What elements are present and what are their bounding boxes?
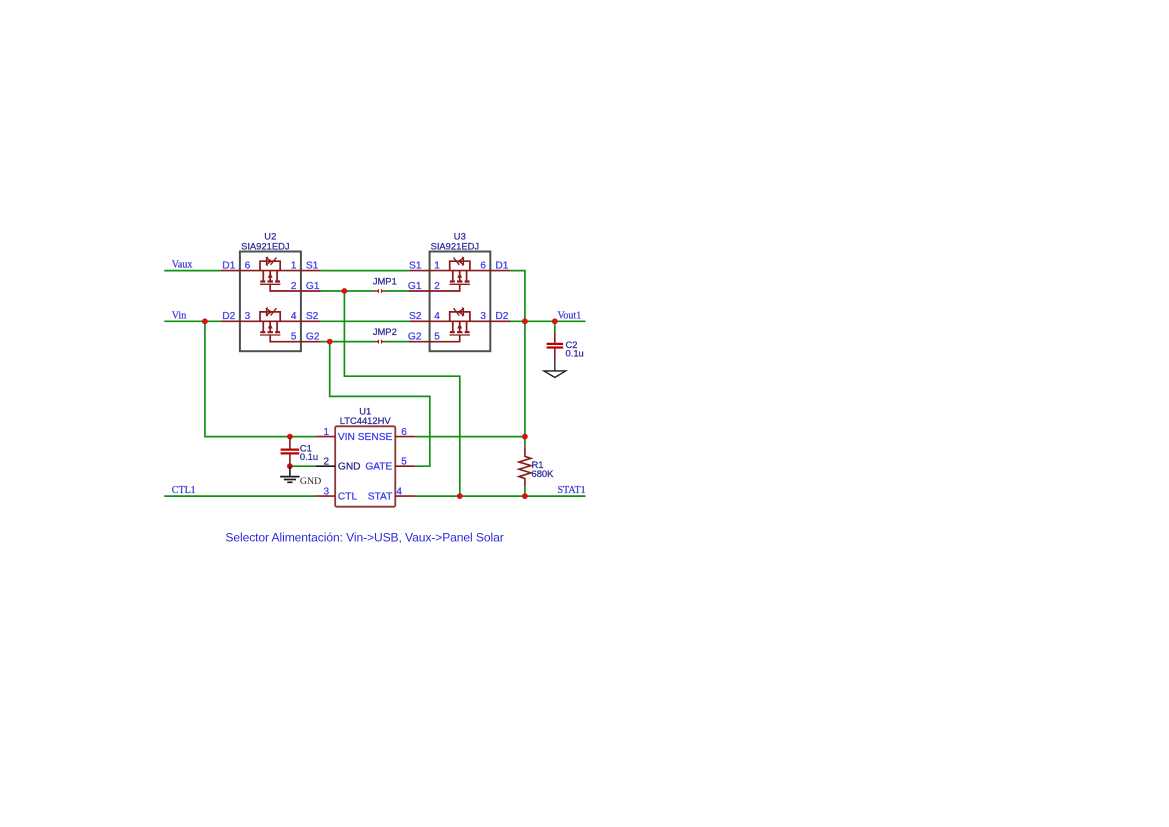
- U1 pin 2 GND stub: [316, 465, 335, 467]
- svg-text:D2: D2: [495, 311, 508, 322]
- wire U3 D1 to right bus: [510, 271, 525, 447]
- transistor U2B: [260, 308, 321, 342]
- svg-text:5: 5: [291, 331, 297, 342]
- svg-text:JMP2: JMP2: [373, 326, 397, 337]
- svg-text:6: 6: [245, 261, 251, 272]
- svg-text:S1: S1: [409, 261, 422, 272]
- junction VIN at C1 top: [287, 434, 293, 440]
- svg-text:1: 1: [291, 261, 297, 272]
- svg-text:G2: G2: [408, 331, 422, 342]
- svg-text:D1: D1: [495, 261, 508, 272]
- junction SENSE at R1 top: [522, 434, 528, 440]
- svg-text:Vin: Vin: [172, 310, 186, 321]
- junction G1 node: [342, 288, 348, 294]
- svg-text:SENSE: SENSE: [358, 432, 393, 443]
- U1 pin 3 CTL stub: [315, 495, 335, 497]
- svg-text:CTL: CTL: [338, 492, 358, 503]
- svg-text:3: 3: [480, 311, 486, 322]
- wire Vaux row: [164, 270, 221, 272]
- U3 pin 6 line D1: [410, 270, 511, 272]
- U2 pin 3 line D2: [221, 320, 321, 322]
- svg-text:S1: S1: [306, 261, 319, 272]
- svg-text:Selector Alimentación: Vin->US: Selector Alimentación: Vin->USB, Vaux->P…: [225, 530, 503, 544]
- svg-text:0.1u: 0.1u: [300, 451, 318, 462]
- svg-text:STAT: STAT: [368, 492, 393, 503]
- svg-text:CTL1: CTL1: [172, 485, 196, 496]
- svg-text:STAT1: STAT1: [558, 485, 586, 496]
- transistor U2A: [260, 257, 321, 291]
- wire GND pin row green part: [290, 465, 316, 467]
- wire G1 left of JMP1: [321, 290, 374, 292]
- svg-text:2: 2: [323, 456, 329, 467]
- resistor R1: [519, 446, 531, 486]
- svg-text:VIN: VIN: [338, 432, 355, 443]
- svg-text:D2: D2: [222, 311, 235, 322]
- U2 pin 6 line D1: [221, 270, 321, 272]
- U1 pin 1 VIN stub: [315, 436, 335, 438]
- U1 pin 6 SENSE stub: [395, 436, 415, 438]
- svg-text:D1: D1: [222, 261, 235, 272]
- svg-text:5: 5: [401, 456, 407, 467]
- junction STAT at R1 bottom: [522, 493, 528, 499]
- junction GND at C1 bottom: [287, 463, 293, 469]
- svg-text:Vout1: Vout1: [558, 310, 582, 321]
- svg-text:SIA921EDJ: SIA921EDJ: [431, 240, 479, 251]
- U1 pin 5 GATE stub: [395, 465, 415, 467]
- capacitor C2: [547, 333, 564, 359]
- svg-text:4: 4: [396, 486, 402, 497]
- wire C2 top lead: [554, 321, 556, 332]
- svg-text:JMP1: JMP1: [373, 276, 397, 287]
- svg-text:Vaux: Vaux: [172, 260, 193, 271]
- IC U2 outline: [240, 252, 301, 352]
- svg-text:GND: GND: [338, 462, 361, 473]
- junction Vin node: [202, 318, 208, 324]
- transistor U3A: [409, 257, 470, 291]
- wire S2 U2-U3: [321, 320, 410, 322]
- U3 pin 3 line D2: [410, 320, 511, 322]
- jumper JMP1: [374, 289, 385, 294]
- svg-text:S2: S2: [409, 311, 422, 322]
- wire D2 to Vout1: [509, 320, 586, 322]
- svg-text:680K: 680K: [532, 468, 555, 479]
- ground symbol GND at C1: [280, 466, 299, 482]
- wire SENSE row: [415, 436, 525, 438]
- svg-text:6: 6: [401, 427, 407, 438]
- junction Vout1 at C2: [552, 318, 558, 324]
- capacitor C1: [281, 437, 300, 467]
- svg-text:2: 2: [434, 281, 440, 292]
- svg-text:G1: G1: [306, 281, 320, 292]
- svg-text:5: 5: [434, 331, 440, 342]
- svg-text:2: 2: [291, 281, 297, 292]
- wire S1 U2-U3: [321, 270, 410, 272]
- ground symbol at C2: [544, 359, 566, 378]
- svg-text:1: 1: [434, 261, 440, 272]
- svg-text:3: 3: [323, 486, 329, 497]
- IC U1 outline: [335, 426, 395, 506]
- svg-text:3: 3: [245, 311, 251, 322]
- wire G2 left of JMP2: [321, 341, 374, 343]
- wire G2 right of JMP2: [386, 341, 410, 343]
- svg-text:SIA921EDJ: SIA921EDJ: [241, 240, 289, 251]
- svg-text:0.1u: 0.1u: [566, 348, 584, 359]
- svg-text:G2: G2: [306, 331, 320, 342]
- IC U3 outline: [430, 252, 491, 352]
- junction STAT at G1 route: [457, 493, 463, 499]
- junction Vout1 at bus: [522, 318, 528, 324]
- wire R1 bottom to STAT row: [524, 486, 526, 496]
- svg-text:6: 6: [480, 261, 486, 272]
- svg-text:GATE: GATE: [365, 462, 392, 473]
- junction G2 node: [327, 339, 333, 345]
- svg-text:1: 1: [323, 427, 329, 438]
- wire Vin vertical to VIN pin: [205, 321, 315, 436]
- jumper JMP2: [374, 339, 385, 344]
- svg-text:S2: S2: [306, 311, 319, 322]
- transistor U3B: [409, 308, 470, 342]
- wire CTL1 row: [164, 495, 315, 497]
- wire G1 right of JMP1: [386, 290, 410, 292]
- wire STAT1 row: [415, 495, 585, 497]
- wire G1 route to STAT node: [344, 291, 459, 496]
- svg-text:LTC4412HV: LTC4412HV: [340, 415, 392, 426]
- svg-text:G1: G1: [408, 281, 422, 292]
- svg-text:4: 4: [434, 311, 440, 322]
- wire G2 route to GATE pin: [330, 342, 430, 467]
- wire Vin row: [164, 320, 221, 322]
- U1 pin 4 STAT stub: [395, 495, 415, 497]
- svg-text:4: 4: [291, 311, 297, 322]
- svg-text:GND: GND: [300, 476, 321, 487]
